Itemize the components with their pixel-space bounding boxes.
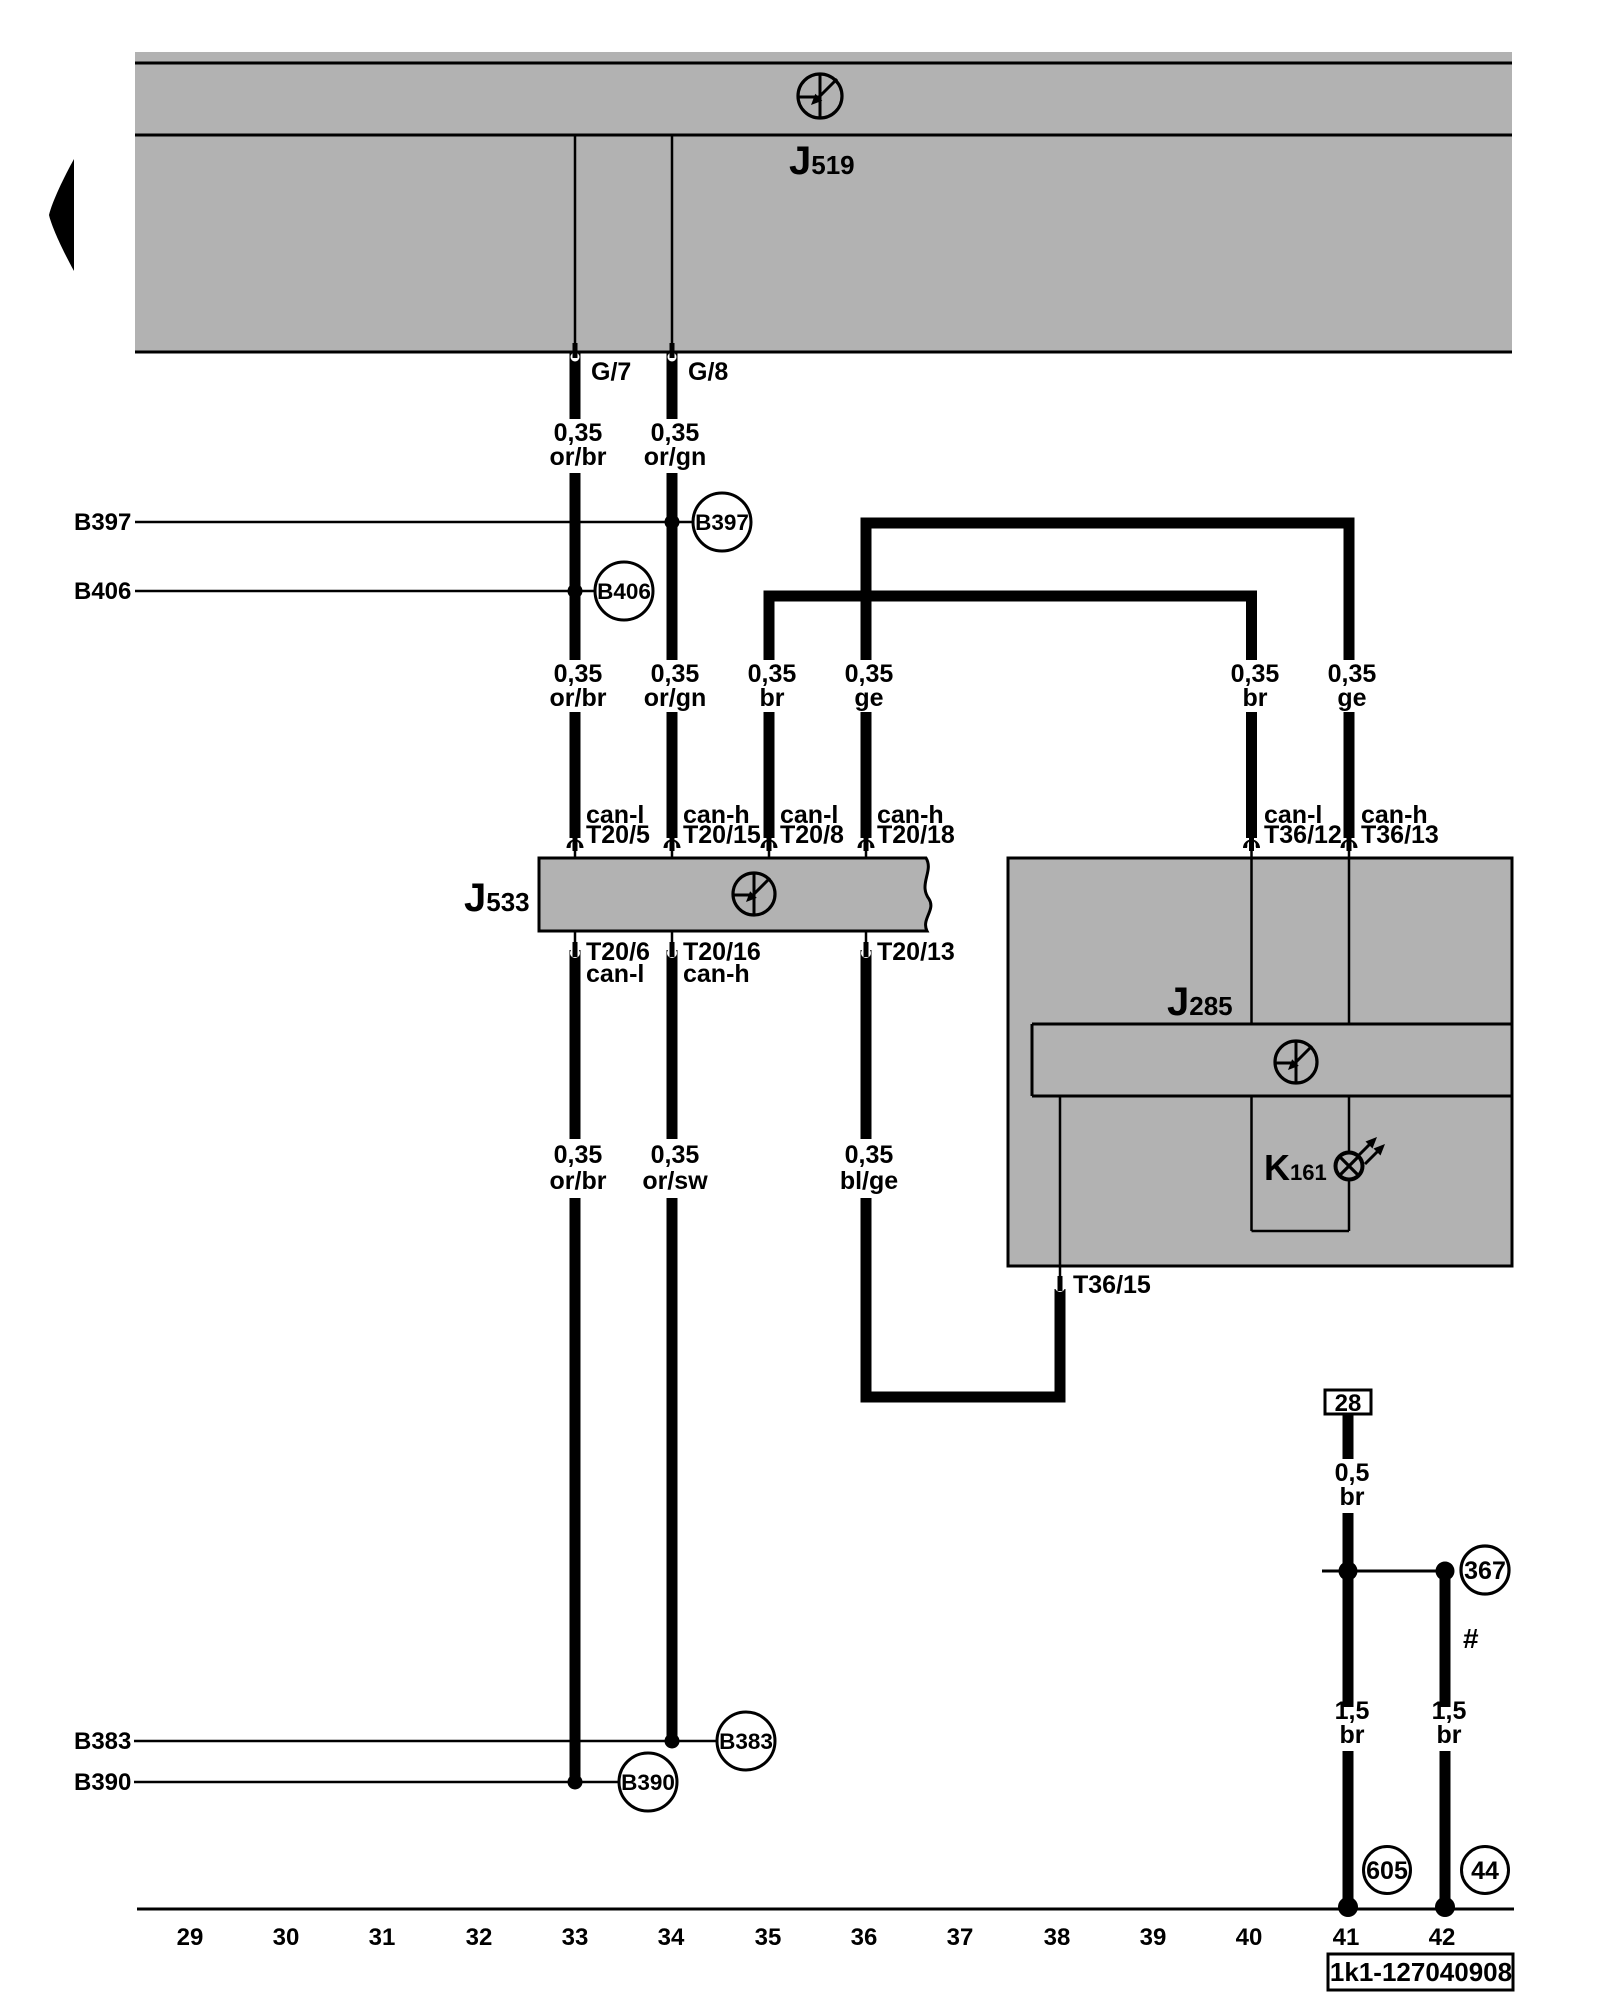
svg-text:or/sw: or/sw: [642, 1167, 708, 1195]
svg-text:ge: ge: [1337, 684, 1366, 712]
terminal T20/6 below J533: [574, 931, 577, 942]
terminal T20/15: [666, 842, 679, 848]
node 367 circle: [1461, 1546, 1509, 1594]
svg-text:B406: B406: [597, 579, 651, 604]
ground designation 605 circle: [1364, 1847, 1411, 1894]
J285 internal leads from T36/12 and T36/13: [1250, 859, 1253, 1024]
node B406 junction dot: [568, 584, 583, 599]
svg-text:B383: B383: [719, 1729, 773, 1754]
svg-text:br: br: [760, 684, 785, 712]
control-unit electronics symbol inside J533: [733, 873, 775, 915]
svg-text:B390: B390: [74, 1769, 131, 1796]
svg-text:38: 38: [1044, 1924, 1071, 1951]
svg-text:bl/ge: bl/ge: [840, 1167, 898, 1195]
wire 0,35 or/gn upper segment from J519 pin G/8: [667, 352, 678, 419]
terminal T20/18: [860, 842, 873, 848]
svg-text:B383: B383: [74, 1728, 131, 1755]
svg-text:T36/12: T36/12: [1264, 821, 1342, 849]
instrument cluster J285 outer box: [1008, 858, 1512, 1266]
control-unit electronics symbol inside J285: [1275, 1041, 1317, 1083]
node B397 junction dot: [665, 515, 680, 530]
J519 pin lead G/8 (thin line inside box): [671, 136, 674, 345]
svg-text:28: 28: [1335, 1390, 1362, 1417]
svg-text:B397: B397: [74, 509, 131, 536]
node B383 lead line: [134, 1740, 717, 1743]
wire bl/ge segment below J533: [861, 950, 872, 1139]
wire or/br long segment down to B390: [570, 1198, 581, 1782]
svg-text:0,35: 0,35: [651, 1141, 700, 1169]
svg-text:T20/8: T20/8: [780, 821, 844, 849]
svg-text:39: 39: [1140, 1924, 1167, 1951]
wire or/sw long segment down to B383: [667, 1198, 678, 1741]
svg-text:can-h: can-h: [683, 960, 750, 988]
svg-text:br: br: [1340, 1721, 1365, 1749]
wire or/gn middle segment: [667, 473, 678, 660]
wire br lower segment to pin T20/8: [764, 712, 775, 838]
node B397 circle: [693, 493, 751, 551]
indicator lamp K161 (LED): [1336, 1137, 1386, 1180]
node B383 junction dot: [665, 1734, 680, 1749]
terminal G/7 socket: [571, 353, 580, 362]
svg-text:30: 30: [273, 1924, 300, 1951]
node B390 circle: [619, 1753, 677, 1811]
J285 control unit bar: [1032, 1024, 1512, 1096]
junction dot right: [1436, 1562, 1455, 1581]
terminal T36/12: [1245, 842, 1258, 848]
wire ge lower segment to pin T20/18: [861, 712, 872, 838]
svg-text:37: 37: [947, 1924, 974, 1951]
terminal 28 box: [1325, 1390, 1371, 1414]
node B383 circle: [717, 1712, 775, 1770]
lead to T36/15: [1059, 1096, 1062, 1266]
svg-text:br: br: [1340, 1483, 1365, 1511]
svg-text:G/8: G/8: [688, 358, 728, 386]
svg-text:44: 44: [1471, 1857, 1499, 1885]
terminal G/8 socket: [668, 353, 677, 362]
continuation arrow marker: [49, 159, 74, 271]
node B406 lead line: [135, 590, 596, 593]
svg-text:34: 34: [658, 1924, 685, 1951]
svg-text:36: 36: [851, 1924, 878, 1951]
control unit J519 body: [135, 52, 1512, 352]
svg-text:40: 40: [1236, 1924, 1263, 1951]
svg-text:or/br: or/br: [550, 684, 607, 712]
terminal T20/8: [763, 842, 776, 848]
svg-text:or/br: or/br: [550, 443, 607, 471]
svg-text:33: 33: [562, 1924, 589, 1951]
node B406 circle: [595, 562, 653, 620]
wire 1,5 br left segment: [1343, 1513, 1354, 1707]
svg-text:29: 29: [177, 1924, 204, 1951]
svg-text:T20/15: T20/15: [683, 821, 761, 849]
svg-text:B406: B406: [74, 578, 131, 605]
wire 0,35 br elbow (T20/8 to T36/12): [769, 596, 1252, 660]
diagram id box 1k1-127040908: [1328, 1954, 1513, 1990]
svg-text:or/gn: or/gn: [644, 684, 707, 712]
svg-text:T20/13: T20/13: [877, 938, 955, 966]
wire 0,35 or/br upper segment from J519 pin G/7: [570, 352, 581, 419]
J519 pin lead G/7 (thin line inside box): [574, 136, 577, 345]
svg-text:32: 32: [466, 1924, 493, 1951]
wire or/sw segment below J533: [667, 950, 678, 1139]
svg-text:31: 31: [369, 1924, 396, 1951]
svg-text:0,35: 0,35: [554, 1141, 603, 1169]
svg-text:367: 367: [1464, 1557, 1506, 1585]
wire or/br middle segment: [570, 473, 581, 660]
wire or/gn lower segment to pin T20/15: [667, 712, 678, 838]
svg-text:T36/15: T36/15: [1073, 1271, 1151, 1299]
wire 0,35 ge elbow (T20/18 to T36/13): [866, 523, 1349, 660]
node B390 lead line: [134, 1781, 619, 1784]
grid numbers 29-42: [177, 1924, 1456, 1951]
K161 circuit leads below bar: [1250, 1096, 1253, 1231]
wire 0,5 br from terminal 28: [1343, 1414, 1354, 1459]
bottom rail line: [137, 1908, 1514, 1911]
svg-text:1k1-127040908: 1k1-127040908: [1330, 1957, 1512, 1987]
svg-text:or/br: or/br: [550, 1167, 607, 1195]
wire bl/ge elbow to T36/15: [866, 1198, 1060, 1397]
ground designation 44 circle: [1462, 1847, 1509, 1894]
wire or/br segment below J533: [570, 950, 581, 1139]
wire ge lower segment to pin T36/13: [1344, 712, 1355, 838]
svg-text:ge: ge: [854, 684, 883, 712]
wire or/br lower segment to pin T20/5: [570, 712, 581, 838]
svg-text:#: #: [1463, 1623, 1479, 1654]
svg-text:42: 42: [1429, 1924, 1456, 1951]
terminal T36/13: [1343, 842, 1356, 848]
svg-text:br: br: [1437, 1721, 1462, 1749]
svg-text:T20/18: T20/18: [877, 821, 955, 849]
svg-text:0,35: 0,35: [845, 1141, 894, 1169]
svg-text:G/7: G/7: [591, 358, 631, 386]
terminal T20/13 below J533: [865, 931, 868, 942]
svg-text:or/gn: or/gn: [644, 443, 707, 471]
svg-text:can-l: can-l: [586, 960, 644, 988]
junction lead line at node 367: [1322, 1570, 1445, 1573]
svg-text:35: 35: [755, 1924, 782, 1951]
terminal T20/5: [569, 842, 582, 848]
control-unit electronics symbol inside J519: [798, 74, 842, 118]
junction dot left: [1339, 1562, 1358, 1581]
svg-text:605: 605: [1366, 1857, 1408, 1885]
node B390 junction dot: [568, 1775, 583, 1790]
terminal T20/16 below J533: [671, 931, 674, 942]
wire 1,5 br left lower segment: [1343, 1751, 1354, 1909]
svg-text:T20/5: T20/5: [586, 821, 650, 849]
terminal T36/15 below J285: [1059, 1266, 1062, 1276]
svg-text:br: br: [1243, 684, 1268, 712]
svg-text:T36/13: T36/13: [1361, 821, 1439, 849]
node B397 lead line: [135, 521, 693, 524]
gateway J533 body (torn right edge): [539, 858, 931, 931]
svg-text:B390: B390: [621, 1770, 675, 1795]
wire br lower segment to pin T36/12: [1246, 712, 1257, 838]
wire 1,5 br right lower segment: [1440, 1751, 1451, 1909]
svg-text:41: 41: [1333, 1924, 1360, 1951]
svg-text:B397: B397: [695, 510, 749, 535]
wire 1,5 br right segment: [1440, 1571, 1451, 1707]
